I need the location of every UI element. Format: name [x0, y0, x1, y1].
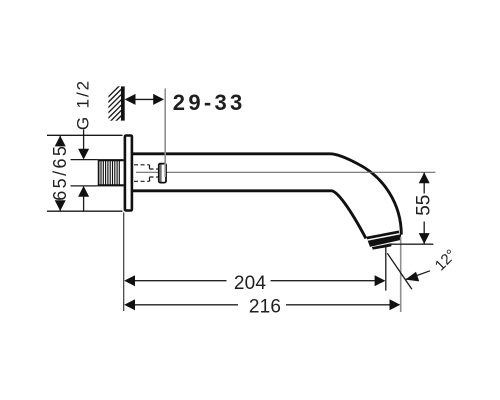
- aerator groove: [367, 232, 399, 238]
- dimension 65/65: [59, 136, 61, 146]
- centerline: [136, 171, 435, 173]
- 216 right extension: [400, 237, 402, 312]
- svg-text:G 1/2: G 1/2: [73, 79, 92, 130]
- dimension 204: [126, 280, 227, 282]
- svg-text:12°: 12°: [432, 246, 460, 274]
- left extension line (wall face): [123, 213, 125, 312]
- threaded pipe: [98, 159, 124, 186]
- extension lines 65/65: [47, 134, 123, 136]
- svg-text:55: 55: [414, 195, 435, 216]
- svg-text:65/65: 65/65: [50, 144, 70, 201]
- flange: [125, 136, 132, 211]
- G1/2 extension lines: [71, 159, 98, 161]
- aerator tip ring: [372, 243, 392, 249]
- dimension G 1/2: [83, 130, 85, 151]
- aerator band: [368, 234, 402, 247]
- wall hatching: [104, 79, 126, 143]
- hidden dashed lines: [134, 165, 159, 182]
- spout tube: [133, 154, 401, 239]
- extension line 29-33: [164, 89, 166, 178]
- svg-text:204: 204: [234, 273, 267, 294]
- dimension 55: [423, 173, 425, 194]
- 204 right extension / 12deg vertical: [385, 247, 387, 291]
- wall line: [121, 86, 125, 120]
- internal screw component: [159, 164, 166, 183]
- 12 degree angle: [387, 253, 412, 289]
- dimension 216: [126, 304, 238, 306]
- svg-text:216: 216: [249, 296, 281, 317]
- dimension 29-33 arrows: [127, 98, 162, 100]
- svg-text:29-33: 29-33: [173, 90, 246, 115]
